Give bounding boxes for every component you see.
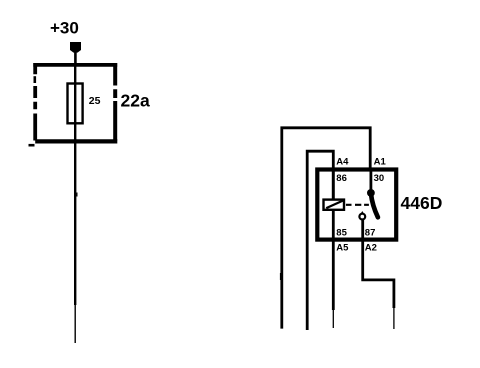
- svg-text:A5: A5: [336, 243, 349, 254]
- relay coil winding: [324, 200, 345, 210]
- dashed mechanical link coil to armature: [346, 204, 369, 206]
- wire pin A5 thin end: [332, 310, 334, 328]
- relay box 446D outline: [317, 170, 396, 240]
- scan tick on left wire: [76, 193, 77, 197]
- scan tick on outer bridge leg: [280, 273, 282, 280]
- svg-text:+30: +30: [50, 19, 79, 38]
- fixed contact nub: [361, 211, 364, 214]
- fuse box 22a dashed border: bottom edge: [35, 139, 117, 143]
- wire pin 30 down to pivot: [369, 169, 372, 190]
- wire A2 branch thin end: [393, 308, 395, 329]
- svg-text:25: 25: [89, 95, 101, 107]
- svg-text:87: 87: [365, 227, 376, 238]
- fuse box 22a dashed border: right edge segments: [113, 63, 117, 141]
- wire through fuse box down the page: [74, 66, 76, 305]
- svg-text:446D: 446D: [401, 193, 443, 213]
- coil diagonal stroke: [326, 201, 343, 209]
- svg-text:85: 85: [336, 227, 347, 238]
- svg-text:A4: A4: [336, 157, 349, 168]
- fuse box 22a dashed border: left edge thin dash: [33, 76, 36, 83]
- wire from +30 terminal down into fuse box: [74, 51, 77, 66]
- stray dash below bottom-left corner of fuse box: [29, 144, 35, 147]
- relay armature (movable contact): [371, 194, 378, 218]
- svg-text:22a: 22a: [121, 91, 150, 111]
- svg-text:86: 86: [336, 173, 347, 184]
- wire: inner bridge from top into relay pin A4 (left leg down page): [307, 151, 333, 330]
- wire pin 86 into coil: [332, 169, 335, 199]
- terminal square at +30: [70, 42, 81, 53]
- fuse box 22a dashed border: left edge segments: [33, 63, 37, 141]
- fuse S25 symbol body: [68, 84, 83, 124]
- fixed contact circle (pin 87): [359, 214, 365, 220]
- wire pin 87 / A2 down from contact: [363, 220, 394, 308]
- svg-text:A1: A1: [374, 157, 387, 168]
- fuse box 22a dashed border: top edge: [33, 63, 117, 67]
- wire pin 85/A5 from coil down: [332, 211, 335, 310]
- svg-text:30: 30: [374, 173, 385, 184]
- wire: outer bridge from top into relay pin A1 (left leg down page): [282, 128, 370, 329]
- svg-text:A2: A2: [365, 243, 377, 254]
- armature pivot dot (pin 30): [367, 189, 375, 197]
- wire lower thin end: [74, 305, 76, 343]
